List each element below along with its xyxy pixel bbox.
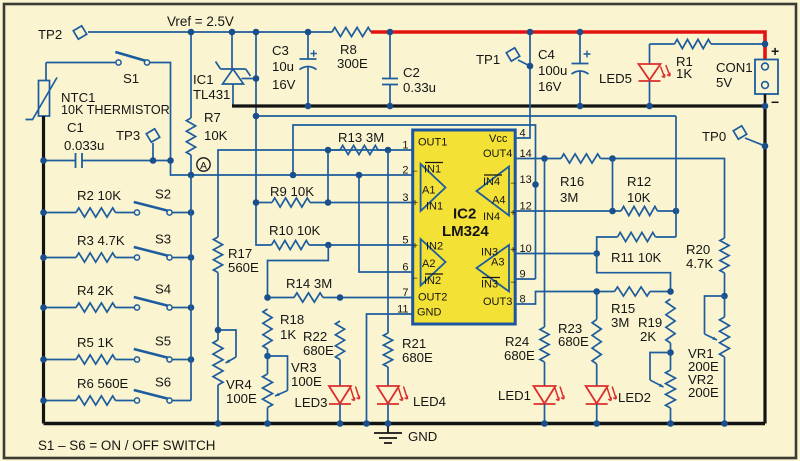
svg-text:S3: S3 xyxy=(155,232,171,247)
svg-text:R4 2K: R4 2K xyxy=(77,283,114,298)
wire R10-R14 xyxy=(268,245,329,298)
node bus xyxy=(721,420,728,427)
svg-text:IN4: IN4 xyxy=(483,211,500,223)
node feedback-A xyxy=(290,172,297,179)
svg-text:+: + xyxy=(412,198,418,209)
node R12 right xyxy=(673,208,680,215)
wire R21-LED4 xyxy=(387,367,389,386)
svg-text:OUT4: OUT4 xyxy=(483,148,512,160)
svg-text:680E: 680E xyxy=(303,343,334,358)
svg-text:R2 10K: R2 10K xyxy=(77,188,121,203)
wire Vref vertical xyxy=(256,32,272,245)
svg-text:R10 10K: R10 10K xyxy=(269,223,321,238)
svg-text:LED2: LED2 xyxy=(618,390,651,405)
svg-text:S4: S4 xyxy=(155,282,171,297)
wire OUT4-R24 xyxy=(544,159,546,328)
svg-text:−: − xyxy=(412,273,417,283)
node Vref-C3 xyxy=(305,29,312,36)
node TL431 ref xyxy=(253,75,260,82)
resistor R16 xyxy=(560,154,601,205)
svg-text:LM324: LM324 xyxy=(442,223,489,240)
svg-text:0.033u: 0.033u xyxy=(64,138,104,153)
node Vref-x256 xyxy=(253,29,260,36)
node A-R7 xyxy=(188,172,195,179)
svg-text:Vref = 2.5V: Vref = 2.5V xyxy=(167,14,234,29)
node R14 left xyxy=(264,294,271,301)
node R9 right xyxy=(325,199,332,206)
resistor R8 xyxy=(332,27,371,71)
label OUT3 xyxy=(483,296,512,308)
node +5V C2 xyxy=(387,29,394,36)
wire left black bus xyxy=(42,116,45,424)
node bus xyxy=(593,420,600,427)
node TP0 xyxy=(762,143,769,150)
node R3 left xyxy=(40,254,47,261)
wire R11-R19 jog xyxy=(597,254,671,292)
wire R17 top xyxy=(218,150,413,237)
wire R7 top xyxy=(190,32,192,118)
resistor R12 xyxy=(515,174,676,216)
svg-text:A1: A1 xyxy=(422,185,435,197)
svg-text:680E: 680E xyxy=(402,350,433,365)
node bus CON1 xyxy=(762,103,769,110)
node R19 bottom xyxy=(667,349,674,356)
svg-text:+: + xyxy=(771,43,779,59)
LED LED3 xyxy=(295,386,360,410)
node R1 CON1 xyxy=(762,41,769,48)
wire S1 to node A xyxy=(171,161,192,176)
op-amp A1 xyxy=(412,163,445,213)
svg-text:OUT1: OUT1 xyxy=(418,137,447,149)
svg-text:C4: C4 xyxy=(538,47,555,62)
svg-text:6: 6 xyxy=(402,262,408,274)
svg-text:16V: 16V xyxy=(272,77,296,92)
ground xyxy=(374,424,437,445)
svg-text:680E: 680E xyxy=(504,348,535,363)
capacitor C3 xyxy=(272,32,317,106)
svg-text:C2: C2 xyxy=(403,65,420,80)
node S3 right xyxy=(188,254,195,261)
wire switch bus xyxy=(190,175,192,401)
svg-text:OUT3: OUT3 xyxy=(483,296,512,308)
svg-text:S1: S1 xyxy=(123,71,139,86)
wire Vref mid rail xyxy=(256,115,676,117)
svg-text:3M: 3M xyxy=(611,315,629,330)
transistor IC1 TL431 xyxy=(193,32,256,106)
svg-text:100E: 100E xyxy=(226,391,257,406)
svg-text:LED4: LED4 xyxy=(413,394,446,409)
node S4 right xyxy=(188,304,195,311)
switch S5 xyxy=(134,334,191,363)
resistor R14 xyxy=(268,276,413,302)
node bus xyxy=(215,420,222,427)
thermistor NTC1 xyxy=(26,63,170,120)
LED LED4 xyxy=(377,386,446,409)
svg-text:R3 4.7K: R3 4.7K xyxy=(77,233,125,248)
wire ground bus top xyxy=(232,104,765,107)
caption xyxy=(38,438,215,453)
svg-text:R11 10K: R11 10K xyxy=(611,250,662,265)
wire OUT1 column xyxy=(387,150,389,333)
node pin13 junction xyxy=(532,181,539,188)
svg-text:R9 10K: R9 10K xyxy=(270,184,314,199)
wire R19-VR2 xyxy=(670,343,672,370)
wire +5V red rail xyxy=(371,32,765,60)
svg-text:R20: R20 xyxy=(686,242,710,257)
resistor R19 xyxy=(638,299,675,344)
label IC2 xyxy=(453,206,476,223)
node A circle xyxy=(197,158,210,172)
pot VR1 xyxy=(705,296,730,424)
node bus xyxy=(264,420,271,427)
svg-text:4.7K: 4.7K xyxy=(686,256,713,271)
svg-text:A: A xyxy=(200,160,207,172)
svg-text:IC1: IC1 xyxy=(193,72,214,87)
svg-text:R19: R19 xyxy=(638,315,662,330)
wire OUT3 jog xyxy=(515,292,597,305)
node R12 left xyxy=(609,208,616,215)
svg-text:+: + xyxy=(510,245,516,256)
label Vref xyxy=(167,14,234,29)
wire R24-LED1 xyxy=(544,362,546,386)
node R15 right xyxy=(667,288,674,295)
node C4 red xyxy=(577,29,584,36)
node R9 left xyxy=(253,199,260,206)
svg-text:S5: S5 xyxy=(155,334,171,349)
svg-text:S6: S6 xyxy=(155,375,171,390)
resistor R11 xyxy=(597,232,676,265)
svg-text:R21: R21 xyxy=(402,336,426,351)
wire pin11 ground xyxy=(367,314,413,424)
svg-text:−: − xyxy=(412,166,417,176)
svg-text:10K: 10K xyxy=(627,190,651,205)
pot VR2 xyxy=(650,353,676,424)
svg-text:−: − xyxy=(510,178,515,188)
pot VR4 xyxy=(213,330,257,424)
wire R7 bottom xyxy=(190,155,192,175)
op-amp A2 xyxy=(412,239,445,287)
wire R16-R12 riser xyxy=(612,159,614,212)
label Vcc xyxy=(489,133,508,145)
resistor R23 xyxy=(558,292,601,365)
svg-text:C3: C3 xyxy=(272,43,289,58)
node R4 left xyxy=(40,304,47,311)
svg-text:R8: R8 xyxy=(340,42,357,57)
svg-text:S1 – S6 = ON / OFF SWITCH: S1 – S6 = ON / OFF SWITCH xyxy=(38,438,215,453)
svg-text:200E: 200E xyxy=(688,385,719,400)
svg-text:R15: R15 xyxy=(611,301,635,316)
resistor R13 xyxy=(328,130,388,155)
label OUT1 xyxy=(418,137,447,149)
svg-text:A4: A4 xyxy=(492,195,505,207)
node Vref mid xyxy=(253,113,260,120)
switch S4 xyxy=(134,282,191,311)
svg-text:0.33u: 0.33u xyxy=(403,80,436,95)
node R16 right xyxy=(609,155,616,162)
test point TP3 xyxy=(116,127,161,160)
label OUT4 xyxy=(483,148,512,160)
svg-text:TL431: TL431 xyxy=(193,87,230,102)
svg-text:LED5: LED5 xyxy=(599,71,632,86)
node bus xyxy=(385,420,392,427)
capacitor C4 xyxy=(538,32,591,106)
svg-text:1K: 1K xyxy=(280,327,296,342)
node R6 left xyxy=(40,397,47,404)
node S5 right xyxy=(188,356,195,363)
wire pin9 stub xyxy=(515,278,535,280)
svg-text:LED1: LED1 xyxy=(498,388,531,403)
LED LED5 xyxy=(599,44,670,106)
svg-text:Vcc: Vcc xyxy=(489,133,508,145)
resistor R21 xyxy=(383,333,433,367)
node Vref-TL431 xyxy=(229,29,236,36)
node TP3 xyxy=(150,157,157,164)
label LM324 xyxy=(442,223,489,240)
resistor R15 xyxy=(597,287,671,330)
pin 11 xyxy=(397,304,408,316)
resistor R7 xyxy=(186,110,227,155)
capacitor C2 xyxy=(382,32,436,106)
svg-text:7: 7 xyxy=(402,287,408,299)
switch S2 xyxy=(134,187,191,216)
svg-text:16V: 16V xyxy=(538,79,562,94)
wire LED4 bottom xyxy=(387,404,389,424)
svg-text:10K: 10K xyxy=(204,128,228,143)
svg-text:R5 1K: R5 1K xyxy=(77,335,114,350)
connector CON1 xyxy=(716,43,779,110)
LED LED2 xyxy=(586,386,651,405)
wire LED2 bottom xyxy=(596,404,598,424)
node C1 left xyxy=(40,157,47,164)
switch S1 xyxy=(46,52,171,161)
svg-text:R12: R12 xyxy=(627,174,651,189)
LED LED1 xyxy=(498,386,564,404)
node R20 bottom xyxy=(721,293,728,300)
node R13 right xyxy=(385,147,392,154)
svg-text:TP0: TP0 xyxy=(702,129,726,144)
resistor R4 xyxy=(44,283,135,312)
node Vref-R7 xyxy=(188,29,195,36)
resistor R9 xyxy=(256,184,413,207)
resistor R17 xyxy=(213,237,259,275)
label OUT2 xyxy=(418,292,447,304)
op-amp A4 xyxy=(477,167,517,224)
svg-text:R24: R24 xyxy=(505,334,529,349)
wire R10 to node A riser xyxy=(359,175,413,272)
svg-text:GND: GND xyxy=(408,429,437,444)
node R15 left xyxy=(593,288,600,295)
pin 14 xyxy=(520,148,532,160)
capacitor C1 xyxy=(44,120,171,168)
wire bottom ground bus xyxy=(44,422,766,425)
svg-text:R14 3M: R14 3M xyxy=(286,276,332,291)
resistor R5 xyxy=(44,335,135,364)
pot VR3 xyxy=(263,349,323,424)
svg-text:IN2: IN2 xyxy=(426,241,443,253)
node R18 bottom xyxy=(264,353,271,360)
pin 5 xyxy=(402,235,408,247)
svg-text:3M: 3M xyxy=(560,190,578,205)
wire R16-R20 xyxy=(601,159,725,239)
svg-text:10u: 10u xyxy=(272,59,294,74)
node bus C2 xyxy=(387,103,394,110)
pin 1 xyxy=(402,140,408,152)
node riser-A xyxy=(356,172,363,179)
node bus C4 xyxy=(577,103,584,110)
label GND pin xyxy=(417,307,442,319)
svg-text:R7: R7 xyxy=(204,110,221,125)
svg-text:A3: A3 xyxy=(491,257,504,269)
resistor R22 xyxy=(303,321,345,360)
test point TP2 xyxy=(38,24,88,42)
wire LED3 bottom xyxy=(339,404,341,424)
svg-text:IN2: IN2 xyxy=(424,275,441,287)
node bus xyxy=(363,420,370,427)
wire R23-LED2 xyxy=(596,364,598,386)
svg-text:IN3: IN3 xyxy=(481,279,498,291)
pin 7 xyxy=(402,287,408,299)
resistor R10 xyxy=(269,223,413,250)
wire OUT4 line xyxy=(515,158,561,160)
node TP1 xyxy=(527,63,534,70)
node R5 left xyxy=(40,356,47,363)
resistor R18 xyxy=(263,309,304,349)
wire Vref-R11 riser xyxy=(675,116,677,237)
resistor R20 xyxy=(686,238,729,296)
resistor R3 xyxy=(44,233,135,262)
node OUT4-LED1 xyxy=(541,155,548,162)
resistor R6 xyxy=(44,376,135,405)
svg-text:R18: R18 xyxy=(280,312,304,327)
svg-text:IN4: IN4 xyxy=(483,176,500,188)
svg-text:10K THERMISTOR: 10K THERMISTOR xyxy=(61,103,170,117)
svg-text:OUT2: OUT2 xyxy=(418,292,447,304)
svg-text:VR3: VR3 xyxy=(291,360,317,375)
wire pin10 line xyxy=(515,253,597,255)
node bus C3 xyxy=(305,103,312,110)
pin 6 xyxy=(402,262,408,274)
svg-text:R17: R17 xyxy=(228,246,252,261)
svg-text:+: + xyxy=(510,208,516,219)
svg-text:VR4: VR4 xyxy=(226,377,252,392)
node bus xyxy=(541,420,548,427)
svg-text:100E: 100E xyxy=(291,374,322,389)
node bus xyxy=(337,420,344,427)
svg-text:+: + xyxy=(412,241,418,252)
svg-text:C1: C1 xyxy=(67,120,84,135)
wire R22-LED3 xyxy=(339,360,341,387)
pin 10 xyxy=(520,243,532,255)
svg-text:CON1: CON1 xyxy=(716,60,753,75)
wire Vref rail xyxy=(88,31,332,33)
wire right black bus xyxy=(763,106,766,424)
node R14 right xyxy=(337,294,344,301)
wire LED1 bottom xyxy=(544,404,546,424)
svg-text:13: 13 xyxy=(520,174,532,186)
svg-text:R13 3M: R13 3M xyxy=(338,130,384,145)
svg-text:TP3: TP3 xyxy=(116,128,140,143)
wire Vcc riser xyxy=(515,32,530,138)
svg-text:R6 560E: R6 560E xyxy=(77,376,129,391)
wire node A line xyxy=(191,174,413,176)
svg-text:−: − xyxy=(510,277,515,287)
op-amp A3 xyxy=(477,245,517,292)
svg-text:TP2: TP2 xyxy=(38,27,62,42)
test point TP1 xyxy=(476,46,530,67)
svg-text:LED3: LED3 xyxy=(295,395,328,410)
svg-text:R16: R16 xyxy=(560,174,584,189)
resistor R24 xyxy=(504,327,549,363)
node R11-pin10 xyxy=(593,250,600,257)
pin 12 xyxy=(520,201,532,213)
switch S6 xyxy=(134,375,191,404)
svg-text:TP1: TP1 xyxy=(476,52,500,67)
pin 9 xyxy=(520,269,526,281)
svg-text:1K: 1K xyxy=(676,66,692,81)
wire R13-R9 xyxy=(327,150,329,203)
pin 13 xyxy=(520,174,532,186)
resistor R1 xyxy=(650,39,766,81)
switch S3 xyxy=(134,232,191,261)
svg-text:−: − xyxy=(771,94,779,110)
svg-text:IN1: IN1 xyxy=(424,164,441,176)
node R13 left xyxy=(325,147,332,154)
svg-text:1: 1 xyxy=(402,140,408,152)
svg-text:2: 2 xyxy=(402,165,408,177)
svg-text:300E: 300E xyxy=(337,56,368,71)
test point TP0 xyxy=(702,124,765,146)
pin 4 xyxy=(520,128,526,140)
pin 8 xyxy=(520,294,526,306)
node S2 right xyxy=(188,209,195,216)
svg-text:5V: 5V xyxy=(716,75,732,90)
resistor R2 xyxy=(44,188,135,217)
pin 3 xyxy=(402,192,408,204)
label VR2t xyxy=(688,372,719,400)
node bus xyxy=(667,420,674,427)
node Vcc red xyxy=(527,29,534,36)
svg-text:3: 3 xyxy=(402,192,408,204)
svg-text:IC2: IC2 xyxy=(453,206,476,223)
svg-text:R22: R22 xyxy=(303,329,327,344)
svg-text:2K: 2K xyxy=(640,329,656,344)
svg-text:560E: 560E xyxy=(228,260,259,275)
node R2 left xyxy=(40,209,47,216)
svg-text:A2: A2 xyxy=(422,258,435,270)
wire inv-input bus xyxy=(293,125,536,279)
wire R17-VR4 xyxy=(217,273,219,341)
label VR1 xyxy=(688,346,719,374)
op-amp IC2 box xyxy=(413,130,516,324)
svg-text:100u: 100u xyxy=(538,63,567,78)
svg-text:5: 5 xyxy=(402,235,408,247)
node S1-C1 xyxy=(167,157,174,164)
svg-text:680E: 680E xyxy=(558,334,589,349)
svg-text:S2: S2 xyxy=(155,187,171,202)
pin 2 xyxy=(402,165,408,177)
node bus LED5 xyxy=(646,103,653,110)
node R10 right xyxy=(325,242,332,249)
svg-text:IN1: IN1 xyxy=(426,201,443,213)
svg-text:GND: GND xyxy=(417,307,442,319)
node VR4 tap xyxy=(215,327,222,334)
